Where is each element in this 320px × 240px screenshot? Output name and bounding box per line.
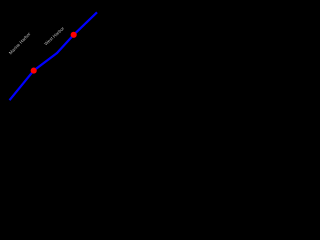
route line (blue) [10,12,98,100]
svg-text:West Harbor: West Harbor [43,25,65,46]
marker B (red waypoint dot, upper right) [71,32,77,38]
svg-text:Marine Harbor: Marine Harbor [8,31,32,56]
marker A (red waypoint dot, lower left) [31,68,37,74]
